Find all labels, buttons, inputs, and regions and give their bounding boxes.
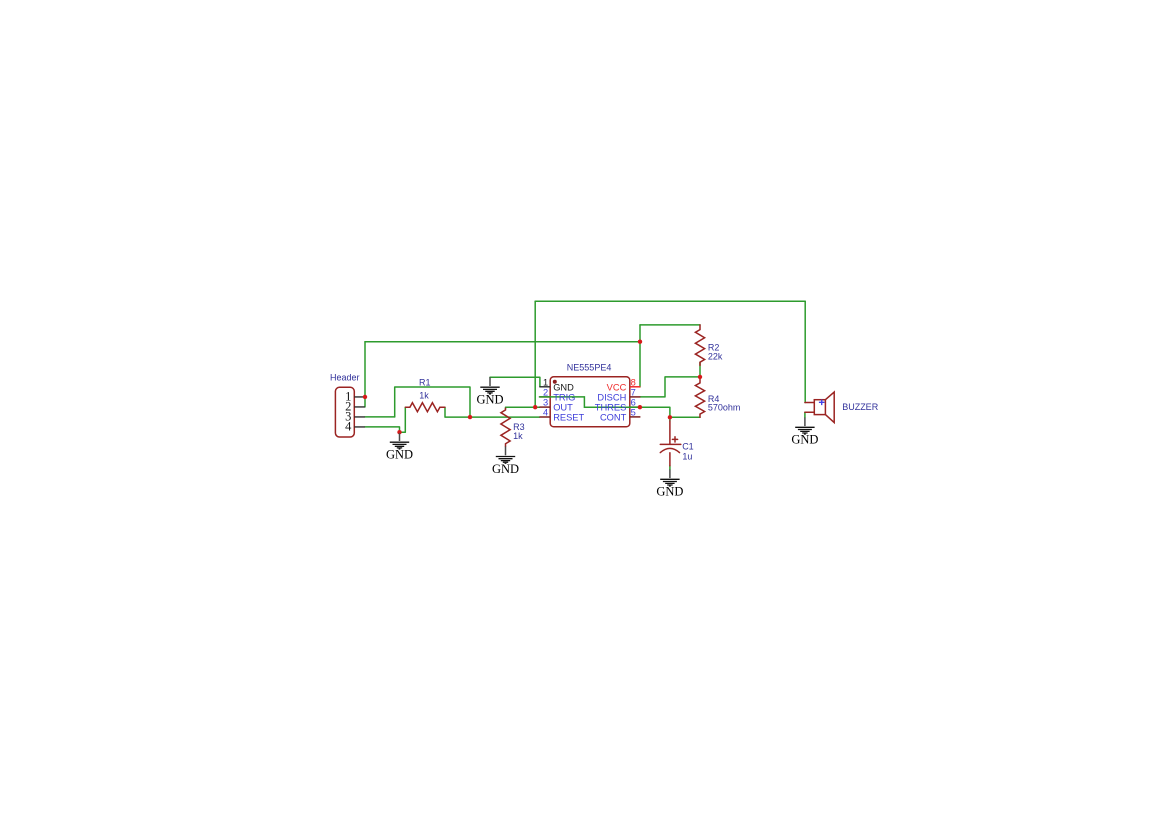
- pin 5 stub: [630, 416, 641, 418]
- svg-text:3: 3: [543, 398, 548, 408]
- wire header pins 1-2 vertical: [364, 342, 366, 407]
- svg-text:6: 6: [631, 398, 636, 408]
- svg-text:570ohm: 570ohm: [708, 403, 741, 413]
- svg-text:1k: 1k: [513, 431, 523, 441]
- svg-text:22k: 22k: [708, 352, 723, 362]
- junction node OUT: [533, 405, 537, 409]
- ground G3 R3: [492, 447, 519, 476]
- svg-text:THRES: THRES: [595, 403, 627, 413]
- wire buzzer to ground: [804, 412, 806, 417]
- pin 1 stub: [539, 386, 550, 388]
- svg-text:1: 1: [543, 377, 548, 387]
- wire vertical buzzer drop: [804, 301, 806, 402]
- wire TRIG to THRES route: [539, 397, 670, 417]
- svg-text:GND: GND: [791, 433, 818, 447]
- svg-text:DISCH: DISCH: [597, 393, 626, 403]
- svg-text:5: 5: [631, 408, 636, 418]
- resistor R2: [695, 325, 704, 366]
- svg-text:1u: 1u: [682, 452, 692, 462]
- junction node header pin 1: [363, 395, 367, 399]
- svg-text:C1: C1: [682, 442, 694, 452]
- wire C1 top lead stub: [669, 417, 671, 421]
- wire VCC net horizontal: [365, 341, 640, 343]
- capacitor C1: [660, 421, 681, 466]
- ground G5 buzzer: [791, 418, 818, 447]
- svg-text:Header: Header: [330, 372, 360, 382]
- svg-text:TRIG: TRIG: [553, 393, 575, 403]
- wire VCC drop to pin 8: [639, 325, 641, 387]
- pin 2 stub: [539, 396, 550, 398]
- junction node C1 top: [668, 415, 672, 419]
- resistor R1: [405, 403, 445, 412]
- svg-text:GND: GND: [476, 393, 503, 407]
- svg-text:GND: GND: [386, 448, 413, 462]
- wire R1 bypass rail: [395, 387, 470, 417]
- pin 7 stub: [630, 396, 641, 398]
- wire R1 right to RESET: [445, 407, 539, 417]
- svg-text:8: 8: [631, 377, 636, 387]
- pin 8 stub: [630, 386, 641, 388]
- svg-text:CONT: CONT: [600, 413, 627, 423]
- resistor R4: [695, 379, 704, 418]
- svg-text:2: 2: [543, 388, 548, 398]
- buzzer LS1: [805, 392, 834, 423]
- junction node R2/R4: [698, 375, 702, 379]
- svg-text:GND: GND: [553, 382, 574, 392]
- wire R2 top rail: [640, 324, 700, 326]
- svg-text:R1: R1: [419, 378, 431, 388]
- svg-text:BUZZER: BUZZER: [842, 402, 879, 412]
- wire C1 bottom stub: [669, 466, 671, 470]
- wire R3 top to OUT: [506, 407, 540, 408]
- pin 1 indicator dot: [553, 380, 557, 384]
- pin 6 stub: [630, 406, 641, 408]
- ground G2 pin1: [476, 377, 503, 406]
- svg-text:OUT: OUT: [553, 403, 573, 413]
- wire header pin 3: [365, 416, 395, 418]
- resistor R3: [501, 408, 510, 446]
- wire top net from OUT to buzzer: [535, 300, 805, 302]
- header pin stubs: [354, 397, 365, 427]
- connector J1 Header box: [335, 387, 354, 437]
- svg-text:GND: GND: [656, 485, 683, 499]
- svg-text:4: 4: [543, 408, 548, 418]
- wire header pin 4 to ground node: [365, 407, 405, 432]
- svg-text:GND: GND: [492, 462, 519, 476]
- pin 4 stub: [539, 416, 550, 418]
- wire THRES node to R4 bottom: [670, 416, 700, 418]
- junction node THRES: [638, 405, 642, 409]
- wire R2 bottom to junction: [699, 362, 701, 377]
- junction node pin4/GND: [397, 430, 401, 434]
- op-amp U1 NE555PE4 body: [550, 377, 630, 427]
- svg-text:RESET: RESET: [553, 413, 584, 423]
- svg-text:VCC: VCC: [607, 382, 627, 392]
- pin 3 stub: [539, 406, 550, 408]
- junction node R1 right: [468, 415, 472, 419]
- wire DISCH to R2/R4 junction: [640, 377, 700, 397]
- junction node VCC: [638, 340, 642, 344]
- svg-text:1k: 1k: [419, 391, 429, 401]
- wire vertical OUT riser: [534, 301, 536, 407]
- svg-text:4: 4: [345, 419, 352, 433]
- wire GND to pin 1: [490, 377, 540, 387]
- ground G4 C1: [656, 470, 683, 499]
- svg-text:7: 7: [631, 388, 636, 398]
- svg-text:NE555PE4: NE555PE4: [567, 362, 612, 372]
- ground G1 header: [386, 433, 413, 461]
